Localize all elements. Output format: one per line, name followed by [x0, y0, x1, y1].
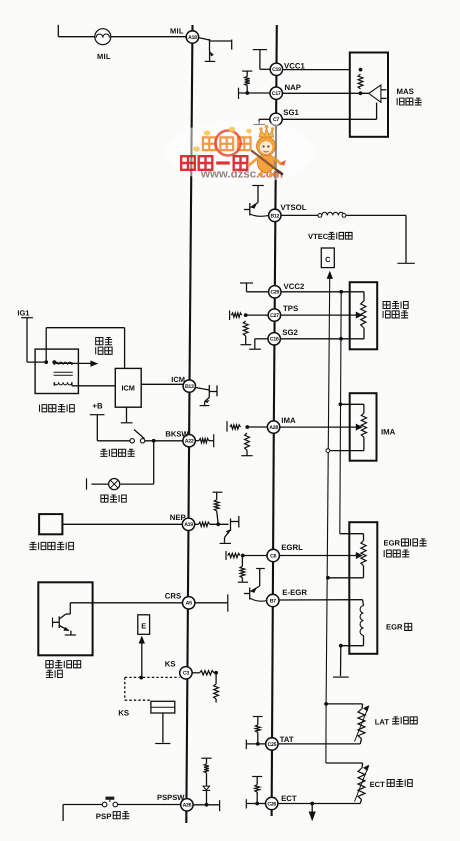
svg-text:C7: C7 — [273, 117, 279, 123]
svg-text:C25: C25 — [268, 742, 277, 748]
svg-text:C: C — [325, 255, 331, 264]
svg-text:SG2: SG2 — [282, 328, 298, 337]
svg-text:VTEC: VTEC — [308, 232, 329, 241]
svg-text:MIL: MIL — [170, 27, 184, 36]
svg-text:VCC2: VCC2 — [284, 282, 305, 291]
svg-text:PSP: PSP — [96, 812, 112, 821]
svg-text:PSPSW: PSPSW — [157, 793, 185, 802]
svg-text:ICM: ICM — [171, 375, 185, 384]
svg-text:A26: A26 — [183, 803, 192, 809]
svg-text:MAS: MAS — [397, 87, 414, 96]
svg-text:TAT: TAT — [280, 735, 294, 744]
svg-text:E-EGR: E-EGR — [282, 588, 307, 597]
svg-text:A19: A19 — [184, 522, 193, 528]
svg-text:B13: B13 — [185, 384, 194, 390]
svg-text:C17: C17 — [272, 91, 281, 97]
svg-text:ECT: ECT — [370, 780, 386, 789]
svg-text:BKSW: BKSW — [165, 429, 189, 438]
svg-text:TPS: TPS — [283, 304, 298, 313]
svg-text:CRS: CRS — [165, 592, 181, 601]
svg-text:+B: +B — [92, 401, 103, 410]
svg-text:A22: A22 — [185, 439, 194, 445]
svg-text:KS: KS — [165, 660, 176, 669]
svg-text:C29: C29 — [270, 290, 279, 296]
svg-text:A18: A18 — [188, 35, 197, 41]
svg-text:A5: A5 — [186, 601, 192, 607]
svg-text:ECT: ECT — [281, 794, 297, 803]
svg-text:EGRL: EGRL — [281, 543, 303, 552]
svg-text:NAP: NAP — [285, 83, 301, 92]
svg-text:IMA: IMA — [381, 427, 396, 436]
svg-text:A28: A28 — [269, 425, 278, 431]
svg-text:VTSOL: VTSOL — [281, 203, 307, 212]
svg-text:C19: C19 — [272, 67, 281, 73]
svg-text:B12: B12 — [270, 213, 279, 219]
svg-text:IG1: IG1 — [17, 309, 29, 318]
svg-text:IMA: IMA — [281, 416, 296, 425]
svg-text:C6: C6 — [270, 553, 276, 559]
svg-text:ICM: ICM — [122, 384, 135, 393]
svg-text:C27: C27 — [270, 313, 279, 319]
svg-text:KS: KS — [118, 709, 129, 718]
svg-text:C3: C3 — [183, 671, 189, 677]
svg-text:EGR: EGR — [384, 539, 401, 548]
svg-text:B7: B7 — [270, 598, 276, 604]
svg-text:SG1: SG1 — [283, 108, 299, 117]
svg-text:C26: C26 — [267, 801, 276, 807]
svg-text:LAT: LAT — [375, 717, 390, 726]
svg-text:C16: C16 — [270, 337, 279, 343]
svg-text:NEP: NEP — [170, 513, 186, 522]
svg-text:E: E — [141, 622, 146, 631]
svg-text:MIL: MIL — [97, 52, 111, 61]
svg-text:EGR: EGR — [386, 623, 403, 632]
